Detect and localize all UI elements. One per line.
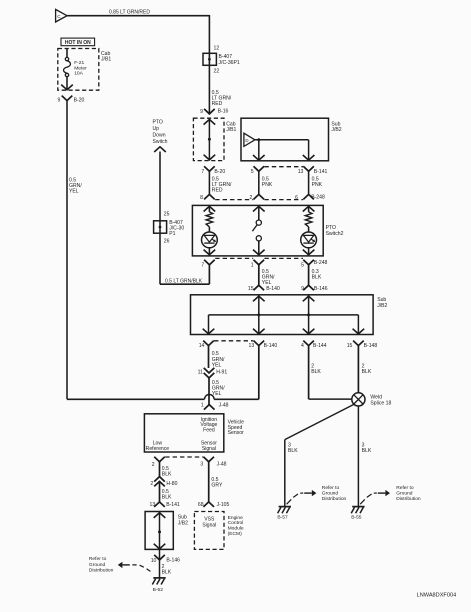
svg-text:Module: Module bbox=[228, 526, 244, 532]
svg-text:D: D bbox=[245, 138, 248, 143]
svg-text:B-248: B-248 bbox=[314, 260, 328, 266]
svg-text:B-248: B-248 bbox=[311, 195, 325, 201]
svg-text:BLK: BLK bbox=[162, 472, 172, 478]
svg-text:3: 3 bbox=[200, 461, 203, 467]
svg-text:7: 7 bbox=[201, 262, 204, 268]
svg-text:P1: P1 bbox=[169, 231, 175, 237]
svg-text:J-48: J-48 bbox=[219, 403, 229, 409]
svg-text:H-91: H-91 bbox=[216, 369, 227, 375]
svg-text:11: 11 bbox=[198, 369, 203, 375]
svg-text:B-146: B-146 bbox=[166, 557, 180, 563]
svg-text:0.5 LT GRN/BLK: 0.5 LT GRN/BLK bbox=[165, 278, 203, 284]
svg-text:7: 7 bbox=[201, 169, 204, 175]
svg-text:B-20: B-20 bbox=[74, 97, 85, 103]
svg-text:PNK: PNK bbox=[312, 182, 323, 188]
svg-text:BLK: BLK bbox=[288, 448, 298, 454]
svg-text:PNK: PNK bbox=[262, 182, 273, 188]
svg-text:9: 9 bbox=[200, 109, 203, 115]
svg-text:2: 2 bbox=[250, 195, 253, 201]
svg-text:B-148: B-148 bbox=[364, 343, 378, 349]
svg-text:RED: RED bbox=[212, 101, 223, 107]
svg-text:B-55: B-55 bbox=[351, 514, 362, 520]
svg-text:BLK: BLK bbox=[162, 494, 172, 500]
svg-text:0.85 LT GRN/RED: 0.85 LT GRN/RED bbox=[109, 9, 150, 15]
svg-text:Ground: Ground bbox=[322, 491, 339, 497]
svg-text:Up: Up bbox=[153, 126, 160, 132]
svg-text:1: 1 bbox=[201, 402, 204, 408]
svg-text:J-48: J-48 bbox=[217, 461, 227, 467]
svg-text:13: 13 bbox=[298, 169, 304, 175]
svg-text:B-141: B-141 bbox=[314, 169, 328, 175]
svg-text:Switch2: Switch2 bbox=[326, 231, 344, 237]
svg-text:Sensor: Sensor bbox=[228, 430, 244, 436]
svg-text:B-146: B-146 bbox=[314, 286, 328, 292]
svg-text:Down: Down bbox=[153, 132, 166, 138]
svg-text:H-80: H-80 bbox=[166, 481, 177, 487]
svg-text:Distribution: Distribution bbox=[89, 567, 114, 573]
svg-text:14: 14 bbox=[199, 343, 205, 349]
svg-text:YEL: YEL bbox=[69, 189, 79, 195]
svg-text:9: 9 bbox=[301, 286, 304, 292]
svg-text:Signal: Signal bbox=[202, 522, 216, 528]
svg-text:YEL: YEL bbox=[212, 362, 222, 368]
svg-text:J/B2: J/B2 bbox=[377, 303, 387, 309]
svg-text:BLK: BLK bbox=[362, 369, 372, 375]
svg-text:Distribution: Distribution bbox=[322, 496, 347, 502]
svg-text:B-140: B-140 bbox=[266, 286, 280, 292]
svg-text:BLK: BLK bbox=[312, 274, 322, 280]
svg-text:HOT IN ON: HOT IN ON bbox=[65, 40, 91, 46]
svg-text:J/B2: J/B2 bbox=[178, 520, 188, 526]
svg-text:B-52: B-52 bbox=[153, 587, 164, 593]
svg-text:Meter: Meter bbox=[74, 65, 87, 71]
svg-text:13: 13 bbox=[249, 343, 255, 349]
svg-text:10A: 10A bbox=[74, 71, 83, 77]
svg-text:GRY: GRY bbox=[211, 483, 223, 489]
svg-text:Ground: Ground bbox=[89, 562, 106, 568]
svg-text:13: 13 bbox=[150, 502, 156, 508]
svg-text:Refer to: Refer to bbox=[322, 485, 340, 491]
svg-text:YEL: YEL bbox=[262, 280, 272, 286]
svg-text:Refer to: Refer to bbox=[89, 556, 107, 562]
svg-text:12: 12 bbox=[214, 46, 220, 52]
svg-text:Distribution: Distribution bbox=[396, 496, 421, 502]
svg-text:J/B1: J/B1 bbox=[101, 57, 111, 63]
svg-text:J/B2: J/B2 bbox=[331, 127, 341, 133]
svg-text:J/B1: J/B1 bbox=[226, 127, 236, 133]
svg-text:68: 68 bbox=[198, 502, 204, 508]
svg-text:15: 15 bbox=[248, 286, 254, 292]
svg-text:9: 9 bbox=[58, 98, 61, 104]
svg-text:BLK: BLK bbox=[311, 369, 321, 375]
svg-text:BLK: BLK bbox=[162, 570, 172, 576]
svg-text:2: 2 bbox=[152, 462, 155, 468]
svg-text:J/C-36P1: J/C-36P1 bbox=[219, 60, 240, 66]
svg-text:BLK: BLK bbox=[362, 448, 372, 454]
svg-text:8: 8 bbox=[200, 195, 203, 201]
svg-text:Reference: Reference bbox=[146, 446, 170, 452]
svg-text:5: 5 bbox=[301, 262, 304, 268]
svg-text:(ECM): (ECM) bbox=[228, 531, 242, 537]
svg-text:Feed: Feed bbox=[203, 428, 215, 434]
svg-text:LNWA8DXF004: LNWA8DXF004 bbox=[417, 592, 457, 598]
svg-text:22: 22 bbox=[214, 69, 220, 75]
svg-text:Refer to: Refer to bbox=[396, 485, 414, 491]
svg-text:PTO: PTO bbox=[153, 119, 163, 125]
svg-text:2: 2 bbox=[150, 481, 153, 487]
svg-text:B-140: B-140 bbox=[264, 343, 278, 349]
svg-text:B-144: B-144 bbox=[313, 343, 327, 349]
svg-text:4: 4 bbox=[301, 343, 304, 349]
svg-text:B-141: B-141 bbox=[166, 502, 180, 508]
svg-text:1: 1 bbox=[251, 262, 254, 268]
svg-text:Splice 18: Splice 18 bbox=[370, 400, 391, 406]
svg-text:26: 26 bbox=[164, 238, 170, 244]
svg-text:F-21: F-21 bbox=[74, 60, 84, 66]
svg-text:B-16: B-16 bbox=[218, 109, 229, 115]
svg-text:5: 5 bbox=[251, 169, 254, 175]
svg-text:Engine: Engine bbox=[228, 515, 244, 521]
svg-text:B-20: B-20 bbox=[214, 169, 225, 175]
svg-text:10: 10 bbox=[151, 558, 157, 564]
svg-text:Ground: Ground bbox=[396, 491, 413, 497]
svg-text:RED: RED bbox=[212, 187, 223, 193]
svg-text:J-105: J-105 bbox=[217, 502, 230, 508]
svg-text:25: 25 bbox=[164, 211, 170, 217]
svg-text:15: 15 bbox=[347, 343, 353, 349]
svg-text:Control: Control bbox=[228, 520, 244, 526]
svg-text:B-57: B-57 bbox=[277, 514, 288, 520]
svg-text:Signal: Signal bbox=[202, 446, 216, 452]
svg-text:Switch: Switch bbox=[153, 139, 168, 145]
